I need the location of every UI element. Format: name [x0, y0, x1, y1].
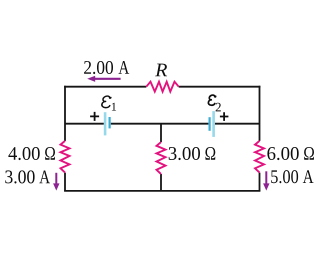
- resistor 3.00 ohm (middle): [157, 142, 166, 174]
- label R: [155, 64, 167, 77]
- wire: left vertical: [64, 86, 66, 191]
- arrow 2.00 A (leftward): [87, 76, 120, 82]
- label E2 (script E): [208, 95, 220, 111]
- label 4.00 ohm: [8, 147, 55, 160]
- label 5.00 A: [271, 170, 313, 183]
- resistor 4.00 ohm (left): [61, 141, 70, 173]
- battery E1 short plate (-): [108, 117, 110, 128]
- wire: middle branch vertical: [160, 124, 162, 191]
- battery E1 long plate (+): [104, 112, 107, 135]
- resistor 6.00 ohm (right): [255, 141, 264, 173]
- label 3.00 ohm: [169, 147, 216, 160]
- arrow 5.00 A (down): [263, 171, 269, 190]
- label E1 (script E): [102, 96, 116, 111]
- battery E2 short plate (-): [209, 117, 211, 131]
- wire: right vertical: [259, 86, 261, 191]
- label 2.00 A: [84, 61, 129, 74]
- plus sign E1: [90, 112, 99, 121]
- wire: middle center (between batteries): [111, 123, 209, 125]
- arrow 3.00 A (down): [53, 173, 59, 191]
- resistor R: [146, 82, 178, 92]
- wire: middle right (E2 to right rail): [215, 123, 260, 125]
- plus sign E2: [220, 112, 229, 121]
- label 6.00 ohm: [267, 147, 314, 160]
- wire: top right segment: [179, 86, 261, 88]
- battery E2 long plate (+): [212, 111, 215, 137]
- wire: bottom: [64, 190, 260, 192]
- label 3.00 A: [5, 170, 50, 183]
- wire: middle left (left rail to E1): [65, 123, 104, 125]
- wire: top left segment: [64, 86, 146, 88]
